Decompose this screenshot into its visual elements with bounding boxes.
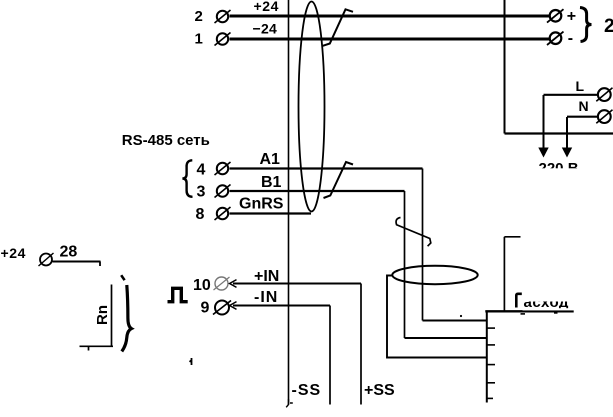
svg-text:1: 1 xyxy=(195,31,203,48)
svg-text:8: 8 xyxy=(196,206,205,223)
svg-text:+24: +24 xyxy=(254,0,280,14)
svg-text:−24: −24 xyxy=(253,20,278,36)
svg-text:+IN: +IN xyxy=(254,268,279,285)
svg-text:N: N xyxy=(579,98,589,114)
svg-text:+: + xyxy=(567,8,576,25)
svg-text:+24: +24 xyxy=(1,245,27,261)
svg-text:B1: B1 xyxy=(261,174,282,191)
svg-text:10: 10 xyxy=(193,277,211,294)
svg-text:4: 4 xyxy=(197,162,206,179)
svg-text:-: - xyxy=(568,30,573,47)
svg-text:Rn: Rn xyxy=(94,305,111,325)
svg-text:-SS: -SS xyxy=(292,382,322,399)
svg-text:2: 2 xyxy=(195,8,203,25)
svg-text:RS-485 сеть: RS-485 сеть xyxy=(122,132,210,149)
svg-text:2: 2 xyxy=(604,16,613,37)
svg-text:3: 3 xyxy=(197,184,206,201)
svg-text:+SS: +SS xyxy=(364,382,395,399)
svg-text:28: 28 xyxy=(60,244,78,261)
svg-text:L: L xyxy=(576,78,585,94)
svg-text:-IN: -IN xyxy=(254,289,278,306)
svg-text:A1: A1 xyxy=(260,151,281,168)
svg-text:9: 9 xyxy=(201,300,210,317)
svg-text:GnRS: GnRS xyxy=(239,195,284,212)
